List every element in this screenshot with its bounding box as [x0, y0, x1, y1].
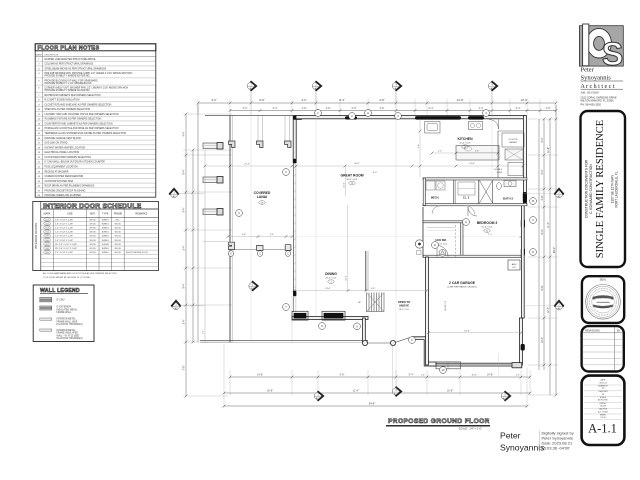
svg-text:PR. 2'-4" X 6'-8" X 1-3/8": PR. 2'-4" X 6'-8" X 1-3/8" — [55, 244, 77, 246]
svg-text:8'-4": 8'-4" — [339, 98, 345, 102]
svg-text:SWING: SWING — [102, 223, 109, 225]
svg-text:Synoyannis: Synoyannis — [500, 443, 544, 453]
svg-text:9'-8": 9'-8" — [475, 151, 479, 153]
svg-text:2'-8" X 6'-8" X 1-3/8": 2'-8" X 6'-8" X 1-3/8" — [55, 223, 73, 225]
svg-text:SWING: SWING — [102, 219, 109, 221]
column circle on garage west wall — [415, 240, 423, 248]
svg-text:SLIDER: SLIDER — [102, 244, 110, 246]
svg-text:8'-0": 8'-0" — [373, 172, 378, 174]
svg-text:BY: BY — [617, 328, 621, 332]
svg-text:REMARKS: REMARKS — [135, 213, 147, 216]
svg-text:BATHROOM CABINETS PER OWNERS S: BATHROOM CABINETS PER OWNERS SELECTION — [45, 94, 101, 97]
svg-text:DATE: DATE — [601, 379, 607, 382]
svg-text:6" EXTERIOR: 6" EXTERIOR — [57, 307, 72, 309]
svg-text:24'-0": 24'-0" — [354, 163, 360, 165]
svg-text:15:03:36 -04'00': 15:03:36 -04'00' — [542, 446, 571, 451]
left side section markers — [169, 189, 179, 198]
svg-text:10'-0": 10'-0" — [520, 98, 527, 102]
interior dimension chain y166 — [205, 165, 523, 167]
lanai top columns — [229, 141, 236, 148]
stair bottom wall — [366, 311, 384, 313]
top wall window segments — [415, 116, 461, 120]
svg-text:10'-0" CLG.: 10'-0" CLG. — [481, 227, 493, 229]
svg-text:WOOD: WOOD — [89, 228, 96, 230]
svg-text:6'-4": 6'-4" — [273, 107, 278, 110]
svg-text:MECH.: MECH. — [431, 196, 440, 200]
svg-text:2'-8": 2'-8" — [541, 195, 544, 200]
svg-text:2'-8" X 6'-8" X 1-3/8": 2'-8" X 6'-8" X 1-3/8" — [55, 219, 73, 221]
hud rm dashed edge — [455, 225, 457, 257]
svg-text:17'-4": 17'-4" — [547, 307, 550, 313]
garage west wall — [426, 257, 429, 365]
svg-text:4'-4": 4'-4" — [479, 107, 484, 110]
top extension lines — [197, 99, 199, 115]
svg-text:4'-8": 4'-8" — [379, 98, 385, 102]
svg-text:11'-4": 11'-4" — [353, 389, 359, 392]
bedroom door arc — [468, 207, 477, 216]
svg-text:6'-4": 6'-4" — [429, 107, 434, 110]
great room west wall — [293, 116, 296, 163]
entry east walls — [413, 337, 436, 366]
svg-text:C: C — [230, 252, 232, 256]
svg-text:S: S — [602, 36, 623, 72]
lanai bottom edge — [200, 340, 368, 342]
svg-text:LANAI: LANAI — [257, 195, 267, 199]
hud rm walls — [423, 221, 463, 223]
svg-text:PROPOSED GROUND FLOOR: PROPOSED GROUND FLOOR — [388, 418, 490, 425]
svg-text:14'-8": 14'-8" — [456, 98, 463, 102]
kitchen right counter line — [497, 131, 499, 178]
lanai west edge line — [229, 115, 231, 342]
svg-text:SLOPE 1/8: SLOPE 1/8 — [445, 300, 447, 311]
svg-text:9'-0": 9'-0" — [488, 234, 492, 236]
svg-text:PH. 954-650-3292: PH. 954-650-3292 — [581, 103, 602, 106]
svg-text:SWING: SWING — [102, 252, 109, 254]
entry west wall — [363, 318, 366, 342]
svg-text:Peter: Peter — [500, 431, 521, 441]
svg-text:6'-0": 6'-0" — [243, 107, 248, 110]
seal box — [582, 276, 624, 323]
svg-text:COLUMN AS PER STRUCTURAL DRAWI: COLUMN AS PER STRUCTURAL DRAWINGS — [45, 63, 94, 66]
svg-text:6" CMU WALL, BELOW OUTDOOR KIT: 6" CMU WALL, BELOW OUTDOOR KITCHEN COUNT… — [45, 161, 106, 164]
svg-text:WOOD: WOOD — [115, 244, 122, 246]
svg-text:AS NOTED: AS NOTED — [598, 399, 608, 402]
svg-text:PROVIDE OVERFLOW SCUPPER: PROVIDE OVERFLOW SCUPPER — [45, 195, 82, 197]
architect name block — [581, 67, 624, 107]
svg-text:T/ OF DOOR HEIGHT AT GROUND FL: T/ OF DOOR HEIGHT AT GROUND FL. (TYPICAL… — [43, 276, 91, 279]
svg-text:INTERIOR DOOR SCHEDULE: INTERIOR DOOR SCHEDULE — [43, 203, 142, 210]
svg-text:UP: UP — [358, 302, 362, 304]
svg-text:DOUBLE: DOUBLE — [494, 169, 503, 171]
svg-text:INTERIOR DOORS: INTERIOR DOORS — [34, 223, 38, 249]
svg-text:5'-8": 5'-8" — [352, 107, 357, 110]
bedroom3 walls — [461, 221, 463, 257]
svg-text:FORT LAUDERDALE, FL.: FORT LAUDERDALE, FL. — [615, 170, 619, 207]
PS architect logo — [579, 24, 623, 72]
svg-text:15'-8": 15'-8" — [447, 389, 453, 392]
svg-text:CL. 3: CL. 3 — [463, 196, 470, 200]
garage door line — [434, 364, 512, 366]
svg-text:SWING: SWING — [102, 236, 109, 238]
svg-text:A r c h i t e c t: A r c h i t e c t — [581, 84, 615, 90]
svg-text:5'-8": 5'-8" — [380, 107, 385, 110]
svg-text:5'-4": 5'-4" — [409, 373, 414, 376]
svg-text:FLOOR PLAN NOTES: FLOOR PLAN NOTES — [38, 46, 100, 52]
svg-text:PORCELAIN FLOOR TILE AND BASE: PORCELAIN FLOOR TILE AND BASE AS PER OWN… — [45, 127, 119, 130]
svg-text:SINGLE FAMILY RESIDENCE: SINGLE FAMILY RESIDENCE — [595, 120, 606, 258]
svg-text:4'-8": 4'-8" — [371, 288, 376, 290]
svg-text:SWING: SWING — [102, 228, 109, 230]
right grid bubbles — [554, 189, 564, 198]
grid lines vertical — [250, 94, 252, 342]
svg-text:9'-8": 9'-8" — [242, 234, 246, 236]
wall legend box — [33, 285, 94, 342]
hud rm closet shelf — [427, 227, 455, 229]
svg-text:C: C — [287, 252, 289, 256]
svg-text:SHEET: SHEET — [600, 414, 607, 416]
svg-text:4'-4": 4'-4" — [183, 131, 186, 136]
bottom dimension lines — [230, 376, 530, 378]
svg-text:2'-4" X 6'-8" X 1-3/8": 2'-4" X 6'-8" X 1-3/8" — [55, 252, 73, 254]
svg-text:WOOD: WOOD — [89, 244, 96, 246]
svg-text:COUNTERTOP AND CABINETS AS PER: COUNTERTOP AND CABINETS AS PER OWNERS SE… — [45, 122, 113, 125]
svg-text:PLAN FOR THICKNESS): PLAN FOR THICKNESS) — [57, 337, 83, 340]
mech cl bath interior walls — [423, 178, 527, 180]
svg-text:WOOD: WOOD — [89, 219, 96, 221]
svg-text:3'-4": 3'-4" — [183, 319, 186, 324]
svg-text:4'-0": 4'-0" — [211, 98, 217, 102]
svg-text:A2.2: A2.2 — [394, 393, 399, 396]
section marker in lanai — [249, 281, 258, 291]
svg-text:GREAT ROOM: GREAT ROOM — [340, 174, 363, 178]
svg-text:23-018: 23-018 — [600, 406, 606, 408]
svg-text:WOOD: WOOD — [115, 248, 122, 250]
svg-text:D: D — [532, 250, 534, 254]
svg-text:WOOD: WOOD — [115, 228, 122, 230]
svg-text:BEDROOM 3: BEDROOM 3 — [477, 221, 498, 225]
entry stoop — [436, 362, 461, 369]
svg-text:HUD RM.: HUD RM. — [435, 238, 446, 242]
double oven — [508, 163, 523, 176]
hud rm door tag — [439, 249, 446, 256]
drawing title PROPOSED GROUND FLOOR — [386, 418, 490, 430]
svg-text:DRAWN BY: DRAWN BY — [598, 384, 609, 387]
svg-text:2'-4" X 6'-8" X 1-3/8": 2'-4" X 6'-8" X 1-3/8" — [55, 228, 73, 230]
dining dim chain — [294, 290, 427, 292]
window and door circle tags — [315, 110, 322, 117]
sheet info box with sheet number A-1.1 — [582, 376, 625, 445]
svg-text:AR. 0015200: AR. 0015200 — [581, 91, 600, 95]
garage east wall — [519, 318, 522, 365]
svg-text:4'-8": 4'-8" — [326, 107, 331, 110]
svg-text:PROVIDE CRICKET ROOF FLASHING: PROVIDE CRICKET ROOF FLASHING — [45, 189, 86, 192]
svg-text:2'-8" X 6'-8" X 1-3/8": 2'-8" X 6'-8" X 1-3/8" — [55, 240, 73, 242]
svg-text:5'-2": 5'-2" — [438, 151, 442, 153]
svg-text:FRAME WALL: FRAME WALL — [57, 311, 73, 314]
svg-text:WOOD: WOOD — [89, 223, 96, 225]
svg-text:PROVIDE STABILITY WHERE AS PER: PROVIDE STABILITY WHERE AS PER MC — [45, 89, 91, 92]
lanai mid colonnade line — [228, 249, 292, 251]
svg-text:SCALE: SCALE — [600, 396, 607, 399]
svg-text:WOOD: WOOD — [115, 240, 122, 242]
svg-text:9'-4": 9'-4" — [183, 169, 186, 174]
hall door arcs — [466, 206, 475, 215]
svg-text:9'-8": 9'-8" — [541, 285, 544, 290]
svg-text:8" CMU: 8" CMU — [57, 300, 65, 302]
svg-text:24'-8": 24'-8" — [469, 163, 475, 165]
svg-text:3'-4": 3'-4" — [203, 330, 205, 334]
digital signature — [500, 431, 574, 453]
garage east window segment — [521, 344, 525, 351]
svg-text:OUTDOOR KITCHEN SINK: OUTDOOR KITCHEN SINK — [45, 181, 74, 183]
svg-text:CHECKED: CHECKED — [598, 391, 608, 393]
svg-text:TEMPERED GLASS SHOWER ENCLOSUR: TEMPERED GLASS SHOWER ENCLOSURE AS PER O… — [45, 132, 127, 135]
svg-text:ELECTRICAL PANEL LOCATION: ELECTRICAL PANEL LOCATION — [45, 151, 80, 154]
svg-text:08.21.23: 08.21.23 — [599, 382, 606, 384]
svg-text:BATH 3: BATH 3 — [503, 197, 513, 201]
svg-text:9'-4": 9'-4" — [183, 207, 186, 212]
svg-text:8'-0": 8'-0" — [541, 229, 544, 234]
svg-text:INSTANT WATER HEATER LOCATION: INSTANT WATER HEATER LOCATION — [45, 146, 86, 149]
svg-text:FRAME: FRAME — [114, 213, 123, 216]
svg-text:CABINET: CABINET — [509, 141, 518, 144]
svg-text:PR. 2'-8" X 6'-8" X 1-3/8": PR. 2'-8" X 6'-8" X 1-3/8" — [55, 248, 77, 250]
svg-text:WOOD: WOOD — [115, 236, 122, 238]
svg-text:WOOD: WOOD — [89, 236, 96, 238]
svg-text:11'-8": 11'-8" — [547, 147, 550, 153]
svg-text:A2.2: A2.2 — [316, 397, 321, 400]
bath3 shower X — [480, 181, 493, 204]
svg-text:A-1.1: A-1.1 — [588, 422, 617, 436]
svg-text:FRAME INSULATED: FRAME INSULATED — [57, 332, 79, 335]
garage door jamb — [512, 363, 522, 368]
svg-text:12'-8": 12'-8" — [346, 275, 348, 281]
cooktop cabinet — [502, 133, 524, 147]
right extension lines — [528, 118, 558, 120]
floor plan grid bubbles top — [247, 81, 256, 91]
stair side wall — [365, 251, 367, 291]
lanai mid columns — [229, 242, 235, 249]
bottom grid bubbles — [314, 391, 323, 401]
svg-text:STEEL BEAM ABOVE AS PER STRUCT: STEEL BEAM ABOVE AS PER STRUCTURAL DRAWI… — [45, 67, 107, 70]
svg-text:12'-0": 12'-0" — [344, 182, 346, 188]
entry columns — [362, 340, 367, 345]
east exterior wall upper — [523, 116, 526, 205]
stairs — [367, 293, 385, 312]
svg-text:OF 10: OF 10 — [600, 417, 605, 419]
main south wall with windows — [292, 316, 368, 319]
svg-text:A2.2: A2.2 — [503, 397, 508, 400]
svg-text:LAUNDRY SINK AND COUNTER TOP A: LAUNDRY SINK AND COUNTER TOP AS PER OWNE… — [45, 113, 119, 116]
svg-text:SEAL: SEAL — [600, 278, 607, 282]
svg-text:SWING: SWING — [102, 240, 109, 242]
svg-text:SHELVING AS PER OWNERS SELECTI: SHELVING AS PER OWNERS SELECTION — [45, 108, 91, 111]
svg-text:PLAN FOR THICKNESS): PLAN FOR THICKNESS) — [57, 323, 83, 326]
svg-text:SHORT HIDDEN DOOR: SHORT HIDDEN DOOR — [126, 252, 148, 254]
svg-text:2 CAR GARAGE: 2 CAR GARAGE — [449, 281, 476, 285]
svg-text:COOKTOP: COOKTOP — [508, 139, 518, 141]
svg-text:OVEN: OVEN — [497, 172, 503, 174]
svg-text:MAT.: MAT. — [90, 213, 96, 216]
lanai west wing walls — [203, 143, 221, 149]
svg-text:CLOSET ROD AND SHELVING AS PER: CLOSET ROD AND SHELVING AS PER OWNERS SE… — [45, 103, 112, 106]
svg-text:RECESS AT SHOWER: RECESS AT SHOWER — [45, 170, 69, 173]
svg-text:10'-0" CLG.: 10'-0" CLG. — [459, 143, 471, 145]
garage interior dim line — [429, 332, 522, 334]
cl3 shelving — [458, 182, 475, 195]
svg-text:(1-HR FIRE RATED CEILING): (1-HR FIRE RATED CEILING) — [447, 286, 477, 289]
svg-text:16'-8": 16'-8" — [464, 330, 470, 332]
svg-text:FLOOR DRAIN PER OWNERS SELECTI: FLOOR DRAIN PER OWNERS SELECTION — [45, 156, 92, 159]
kitchen back door arc — [489, 120, 499, 130]
svg-text:UNDERCOUNTER REFRIGERATOR: UNDERCOUNTER REFRIGERATOR — [45, 175, 84, 178]
svg-text:ABOVE: ABOVE — [399, 304, 409, 308]
svg-text:11'-4": 11'-4" — [547, 222, 550, 228]
svg-text:5'-4": 5'-4" — [541, 137, 544, 142]
svg-text:DESCRIPTION: DESCRIPTION — [45, 54, 59, 56]
svg-text:ALL DOOR HARDWARE AND DOOR STY: ALL DOOR HARDWARE AND DOOR STYLES AS PER… — [43, 272, 117, 275]
svg-text:MARK: MARK — [44, 213, 51, 216]
svg-text:C: C — [259, 252, 261, 256]
svg-text:C: C — [532, 218, 534, 222]
svg-text:9'-4": 9'-4" — [183, 283, 186, 288]
svg-text:SWING: SWING — [102, 232, 109, 234]
svg-text:GAS (LW) ON STAND: GAS (LW) ON STAND — [45, 142, 68, 145]
svg-text:4'-0": 4'-0" — [301, 98, 307, 102]
svg-text:B: B — [532, 199, 534, 203]
vertical interior chains — [419, 119, 421, 177]
entry door swing — [395, 337, 413, 343]
svg-text:KITCHEN: KITCHEN — [457, 137, 473, 141]
svg-text:MTL.: MTL. — [116, 219, 121, 221]
top dimension line 2 — [230, 110, 556, 112]
svg-text:4'-8": 4'-8" — [418, 144, 420, 148]
svg-text:7'-8": 7'-8" — [183, 365, 186, 370]
bath3 fixtures — [497, 183, 502, 190]
svg-text:AHU: AHU — [512, 263, 517, 266]
east exterior wall lower — [521, 204, 524, 318]
svg-text:MARK: MARK — [36, 53, 42, 56]
svg-text:9'-8": 9'-8" — [259, 98, 265, 102]
svg-text:Synoyannis: Synoyannis — [581, 75, 612, 82]
east wall window segments — [523, 192, 527, 203]
svg-text:5'-4": 5'-4" — [541, 169, 544, 174]
svg-text:54'-8": 54'-8" — [369, 401, 376, 405]
svg-text:PROVIDE STABILITY 1 1/2" WHERE: PROVIDE STABILITY 1 1/2" WHERE BLOCK — [45, 82, 93, 85]
svg-text:9'-8": 9'-8" — [270, 234, 274, 236]
svg-text:1'-8": 1'-8" — [516, 375, 520, 377]
svg-text:2'-4" X 6'-8" X 1-3/8": 2'-4" X 6'-8" X 1-3/8" — [55, 232, 73, 234]
svg-text:A-1.1 DWG: A-1.1 DWG — [598, 410, 608, 413]
lanai roof beam lines — [257, 115, 259, 141]
floor plan notes table — [35, 44, 156, 198]
kitchen dim chain y153 — [432, 152, 498, 154]
svg-text:WOOD: WOOD — [89, 248, 96, 250]
svg-text:INTERIOR METAL: INTERIOR METAL — [57, 318, 77, 321]
bottom extension lines — [229, 370, 231, 395]
svg-text:WOOD: WOOD — [115, 223, 122, 225]
svg-text:WOOD: WOOD — [115, 252, 122, 254]
svg-text:WOOD: WOOD — [115, 232, 122, 234]
svg-text:WOOD: WOOD — [89, 252, 96, 254]
svg-text:18'-0" CLG.: 18'-0" CLG. — [399, 309, 410, 311]
svg-text:E: E — [434, 243, 436, 247]
svg-text:C. EDWAARD CONSTRUCTION: C. EDWAARD CONSTRUCTION — [589, 164, 593, 214]
kitchen island — [456, 146, 499, 161]
svg-text:21'-4": 21'-4" — [244, 164, 250, 166]
svg-text:TYPE: TYPE — [102, 213, 109, 216]
svg-text:3'-4": 3'-4" — [516, 107, 521, 110]
svg-text:CAD FILE: CAD FILE — [599, 408, 608, 411]
svg-text:7'-0" CLG.: 7'-0" CLG. — [438, 244, 448, 246]
revisions table — [582, 326, 624, 371]
svg-text:SCALE : 1/4" = 1'-0": SCALE : 1/4" = 1'-0" — [459, 427, 482, 431]
AHU unit — [508, 260, 520, 270]
svg-text:46'-0": 46'-0" — [553, 247, 556, 253]
svg-text:DINING: DINING — [325, 272, 337, 276]
top exterior wall — [296, 116, 526, 119]
svg-text:JOB NO.: JOB NO. — [599, 403, 607, 405]
lanai mid colonnade dim line — [228, 236, 292, 238]
svg-text:POOL EQUIPMENT LOCATION: POOL EQUIPMENT LOCATION — [45, 165, 79, 168]
svg-text:FRAME WALL (SEE: FRAME WALL (SEE — [57, 320, 78, 323]
svg-text:PLUMBING FIXTURE AS PER OWNERS: PLUMBING FIXTURE AS PER OWNERS SELECTION — [45, 118, 102, 121]
kitchen sink counter — [425, 122, 440, 134]
svg-text:WALL - IN. R-13 (SEE: WALL - IN. R-13 (SEE — [57, 334, 80, 337]
svg-text:16'-8": 16'-8" — [471, 375, 476, 377]
svg-text:4'-8": 4'-8" — [302, 107, 307, 110]
kitchen range — [469, 122, 483, 130]
right dimension lines — [538, 119, 540, 370]
svg-text:SIZE: SIZE — [67, 213, 73, 216]
svg-text:PROVIDE GARAGE VENT BLOCK: PROVIDE GARAGE VENT BLOCK — [45, 137, 82, 140]
svg-text:WILTON MANORS, FL 33306: WILTON MANORS, FL 33306 — [581, 99, 615, 102]
svg-text:H: H — [367, 111, 369, 115]
left extension lines — [183, 113, 232, 115]
lanai colonnade tags — [228, 251, 234, 257]
left dimension lines — [185, 114, 187, 396]
svg-text:R-13 BATT SOUND INSULATION: R-13 BATT SOUND INSULATION — [45, 99, 80, 102]
svg-text:9'-8": 9'-8" — [340, 373, 345, 376]
svg-text:G: G — [465, 220, 467, 224]
svg-text:INTERIOR METAL: INTERIOR METAL — [57, 329, 77, 332]
svg-text:2'-8" X 6'-8" X 1-3/8": 2'-8" X 6'-8" X 1-3/8" — [55, 236, 73, 238]
svg-text:14'-8": 14'-8" — [257, 373, 263, 376]
entry vertical dim extension — [392, 346, 394, 390]
svg-text:SWING: SWING — [102, 248, 109, 250]
top dimension line 1 — [198, 102, 556, 104]
svg-text:2'-8": 2'-8" — [546, 107, 551, 110]
svg-text:WOOD: WOOD — [89, 232, 96, 234]
svg-text:WOOD: WOOD — [89, 240, 96, 242]
svg-text:18'-8": 18'-8" — [267, 389, 273, 392]
svg-text:14'-8": 14'-8" — [487, 373, 493, 376]
grid line leaders to right markers — [524, 193, 555, 195]
svg-text:INSULATED METAL: INSULATED METAL — [57, 308, 79, 311]
svg-text:DASHED LINE DENOTES STRUCTURE: DASHED LINE DENOTES STRUCTURE ABOVE — [45, 58, 96, 61]
lanai top edge — [205, 114, 293, 116]
project title box — [581, 111, 626, 267]
svg-text:REVISIONS: REVISIONS — [585, 328, 600, 332]
mech fixtures washer dryer — [426, 181, 435, 190]
svg-text:PROVIDE STABILITY WHERE AS PER: PROVIDE STABILITY WHERE AS PER MC — [45, 75, 91, 78]
svg-text:18'-0" CLG.: 18'-0" CLG. — [346, 179, 358, 181]
garage bottom wall — [430, 363, 521, 366]
interior door schedule table — [33, 201, 159, 270]
svg-text:3'-4": 3'-4" — [183, 245, 186, 250]
svg-text:24'-0": 24'-0" — [325, 288, 331, 290]
svg-text:18'-0" CLG.: 18'-0" CLG. — [325, 278, 337, 280]
